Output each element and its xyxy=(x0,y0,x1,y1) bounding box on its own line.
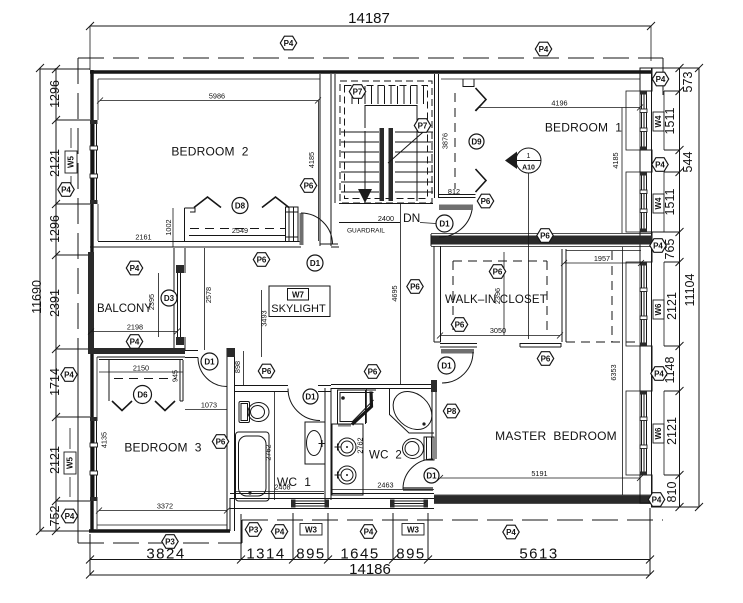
window tag W3 left xyxy=(300,524,322,536)
svg-text:573: 573 xyxy=(681,72,695,93)
svg-text:P4: P4 xyxy=(61,185,71,194)
interior dim 6353 (master) xyxy=(609,247,623,495)
wc2 toilet xyxy=(403,437,435,460)
svg-text:P6: P6 xyxy=(541,354,551,363)
stair upper landing edge xyxy=(365,105,417,201)
window W5 left lower glazing xyxy=(90,417,98,501)
svg-text:3372: 3372 xyxy=(157,502,173,511)
svg-text:4196: 4196 xyxy=(551,99,567,108)
svg-text:WC 2: WC 2 xyxy=(369,450,402,462)
tag D6 (bedroom3 wardrobe) xyxy=(134,386,152,404)
guardrail line xyxy=(339,214,400,223)
tag P4 (left 752) xyxy=(61,509,77,523)
svg-text:P6: P6 xyxy=(368,367,378,376)
bottom extension lines xyxy=(90,508,650,575)
bedroom2 wardrobe rail dashed + 2549 xyxy=(189,226,286,236)
interior wall: walk-in closet divider xyxy=(562,249,566,342)
svg-text:P4: P4 xyxy=(539,45,549,54)
svg-text:1511: 1511 xyxy=(663,108,677,135)
tag P4 (top eave left) xyxy=(280,36,296,50)
svg-text:D1: D1 xyxy=(310,259,321,268)
svg-text:11690: 11690 xyxy=(30,280,44,314)
svg-text:2400: 2400 xyxy=(378,214,394,223)
bedroom2 wardrobe right end cabinet xyxy=(286,207,299,242)
stairwell dashed opening outline xyxy=(340,81,432,203)
svg-text:2121: 2121 xyxy=(48,149,62,177)
svg-text:P4: P4 xyxy=(64,370,74,379)
svg-text:2150: 2150 xyxy=(133,364,149,373)
interior wall: bedroom3 north xyxy=(97,351,198,358)
svg-text:544: 544 xyxy=(681,152,695,173)
interior wall: stairwell west edge xyxy=(334,74,336,203)
svg-text:P4: P4 xyxy=(364,527,374,536)
interior dim 4196 (bedroom1) xyxy=(475,99,643,111)
svg-text:1511: 1511 xyxy=(663,189,677,216)
tag P4 (top eave right) xyxy=(535,42,551,56)
window W6 right third xyxy=(626,262,664,346)
exterior wall bottom (bedroom 3) xyxy=(89,525,230,531)
bedroom3 wardrobe dim 2150 xyxy=(99,364,183,373)
svg-text:2121: 2121 xyxy=(665,292,679,320)
svg-text:P6: P6 xyxy=(216,437,226,446)
svg-text:P4: P4 xyxy=(65,512,75,521)
svg-text:2762: 2762 xyxy=(356,437,365,453)
bedroom2 dim 1002 xyxy=(164,208,173,247)
bedroom2 wardrobe door chevron right xyxy=(262,197,289,208)
window W6 right lower xyxy=(626,391,664,475)
svg-text:WALK–IN CLOSET: WALK–IN CLOSET xyxy=(445,294,547,306)
tag P6 (bedroom2) xyxy=(300,179,316,193)
interior dim 2198 (balcony) xyxy=(88,323,180,335)
interior wall: balcony south (poche) xyxy=(88,348,185,354)
svg-text:898: 898 xyxy=(233,361,242,373)
svg-text:P6: P6 xyxy=(493,267,503,276)
svg-text:DN: DN xyxy=(403,211,420,225)
svg-text:2395: 2395 xyxy=(147,294,156,310)
svg-text:W6: W6 xyxy=(654,427,663,440)
tag D8 (bedroom2 wardrobe) xyxy=(232,198,248,214)
svg-text:1296: 1296 xyxy=(48,215,62,243)
right overall dimension 11104 xyxy=(683,64,703,511)
svg-text:A10: A10 xyxy=(522,165,535,172)
tag D3 (balcony door) xyxy=(161,290,177,306)
svg-text:4185: 4185 xyxy=(307,152,316,168)
svg-text:D1: D1 xyxy=(441,361,452,370)
svg-text:2121: 2121 xyxy=(48,446,62,474)
svg-text:W5: W5 xyxy=(66,456,75,469)
exterior wall right (window piers) xyxy=(640,68,652,507)
svg-text:P4: P4 xyxy=(130,337,140,346)
svg-text:GUARDRAIL: GUARDRAIL xyxy=(347,228,385,235)
svg-text:W5: W5 xyxy=(67,155,76,168)
wc1 vanity with oval basin xyxy=(305,422,326,464)
stair upper flight treads xyxy=(352,86,424,104)
svg-text:1: 1 xyxy=(527,153,531,160)
svg-text:945: 945 xyxy=(171,370,180,382)
bedroom2 wardrobe door chevron left xyxy=(194,197,221,208)
exterior wall bottom (master bedroom) xyxy=(434,495,651,504)
tag P4 (right 573) xyxy=(652,72,668,86)
svg-text:6353: 6353 xyxy=(609,364,618,380)
bedroom3 wardrobe door chevron right xyxy=(155,401,175,411)
svg-text:812: 812 xyxy=(448,187,460,196)
svg-text:MASTER BEDROOM: MASTER BEDROOM xyxy=(495,429,617,443)
tag P4 (bottom w3 left) xyxy=(271,525,287,539)
exterior wall top xyxy=(90,72,651,79)
svg-text:2161: 2161 xyxy=(135,233,151,242)
wc1 toilet xyxy=(239,402,269,423)
tag P6 (closet ne) xyxy=(489,265,505,279)
window tag W4 (right second) xyxy=(653,194,664,213)
wc1 bathtub xyxy=(236,432,270,501)
interior wall: wc1/wc2 divider xyxy=(325,388,331,500)
window tag W6 (right lower) xyxy=(653,424,664,443)
tag P6 (wc1 west wall) xyxy=(212,435,228,449)
interior dim 4185 (bedroom2) xyxy=(307,101,319,242)
tag P6 (bedroom1) xyxy=(477,194,493,208)
svg-text:1957: 1957 xyxy=(594,254,610,263)
interior dim 2762 (wc1) xyxy=(264,392,275,500)
svg-text:D1: D1 xyxy=(204,357,215,366)
tag P3 (bottom wc1) xyxy=(245,523,261,537)
tag P6 (closet sw) xyxy=(451,318,467,332)
door wc2-master leaf xyxy=(403,487,433,491)
tag P4 (left W5 upper) xyxy=(58,183,74,197)
svg-text:11104: 11104 xyxy=(683,274,697,307)
bedroom2 wardrobe left end xyxy=(185,208,196,242)
right extension lines xyxy=(651,68,699,507)
tag D1 (bedroom2 door) xyxy=(307,255,323,271)
svg-text:2578: 2578 xyxy=(204,287,213,303)
interior dim 1073 (bedroom3 entry) xyxy=(185,401,227,410)
svg-text:BEDROOM 3: BEDROOM 3 xyxy=(124,441,201,455)
right dimension chain 573/1511/544/1511/765/2121/1148/2121/810 xyxy=(663,64,695,511)
svg-text:P6: P6 xyxy=(257,255,267,264)
interior wall: balcony east with door jambs xyxy=(174,248,185,350)
svg-text:W4: W4 xyxy=(654,115,663,128)
door wc1 swing arc xyxy=(288,389,320,421)
svg-text:1714: 1714 xyxy=(48,368,62,396)
door bedroom2 swing arc xyxy=(301,213,333,245)
wc2 bathtub oval xyxy=(386,384,440,437)
svg-text:P4: P4 xyxy=(654,369,664,378)
door bedroom1 leaf xyxy=(439,205,473,211)
svg-text:D1: D1 xyxy=(426,471,437,480)
interior wall: walk-in closet west xyxy=(434,246,441,342)
tag P6 (closet door) xyxy=(537,352,553,366)
svg-text:W3: W3 xyxy=(305,525,318,534)
svg-text:2762: 2762 xyxy=(264,444,273,460)
svg-text:BEDROOM 1: BEDROOM 1 xyxy=(545,121,622,135)
svg-text:4695: 4695 xyxy=(390,285,399,301)
svg-text:P4: P4 xyxy=(506,528,516,537)
bedroom1 closet dashed rail xyxy=(454,93,456,189)
tag P8 (master west) xyxy=(443,404,459,418)
wc2 corner shower xyxy=(338,390,377,426)
svg-text:4185: 4185 xyxy=(611,152,620,168)
svg-text:P7: P7 xyxy=(353,87,363,96)
window tag W5 (left upper) xyxy=(65,128,77,196)
tag P4 (bottom master) xyxy=(503,525,519,539)
interior dim 4695 (hall) xyxy=(390,204,401,385)
tag D1 (bedroom1 door) xyxy=(436,215,453,232)
tag D1 (closet door) xyxy=(438,357,455,374)
tag P4 (balcony lower) xyxy=(126,335,142,349)
section marker A10 xyxy=(505,148,541,173)
interior wall: wc1 north with door opening xyxy=(234,386,331,392)
walk-in closet dim 1957 xyxy=(561,254,644,266)
door bedroom1 swing arc xyxy=(439,210,472,237)
svg-text:P8: P8 xyxy=(447,407,457,416)
tag P3 (bottom bedroom3) xyxy=(162,535,178,549)
interior dim 4185 (bedroom1) xyxy=(611,108,622,234)
door bedroom2 leaf xyxy=(300,213,304,245)
tag P7 (stair upper) xyxy=(349,85,365,99)
interior wall: balcony west (poche) xyxy=(88,252,94,352)
svg-text:4135: 4135 xyxy=(100,432,109,448)
window tag W4 (right upper) xyxy=(653,112,664,131)
svg-text:895: 895 xyxy=(396,546,426,563)
svg-text:P4: P4 xyxy=(284,39,294,48)
svg-text:5613: 5613 xyxy=(519,546,558,563)
svg-text:765: 765 xyxy=(663,239,677,260)
interior dim 898 (wc1) xyxy=(233,351,244,385)
door walk-in closet leaf xyxy=(441,349,474,354)
left extension lines xyxy=(40,69,90,531)
window tag W3 right xyxy=(402,524,424,536)
tag D9 (bedroom1 closet) xyxy=(469,134,484,149)
window W3 bottom left xyxy=(291,500,329,508)
tag P4 (right 765) xyxy=(650,239,666,253)
interior wall: stairwell east / bedroom1 closet xyxy=(435,74,476,198)
interior dim 5986 (bedroom2) xyxy=(97,92,321,104)
svg-text:2391: 2391 xyxy=(48,289,62,317)
svg-text:1073: 1073 xyxy=(201,401,217,410)
tag P6 (closet north wall) xyxy=(537,229,553,243)
interior wall: bedroom2 south xyxy=(90,242,339,248)
interior wall: hall south / walk-in closet north (poche) xyxy=(431,234,652,247)
svg-text:5986: 5986 xyxy=(209,92,225,101)
stair bottom edge xyxy=(339,203,433,205)
tag P4 (bottom 1645) xyxy=(360,525,376,539)
bedroom3 wardrobe door chevron left xyxy=(112,401,132,411)
window W5 left upper glazing xyxy=(90,120,98,204)
svg-text:P3: P3 xyxy=(249,525,259,534)
interior dim 2408 (wc1) xyxy=(235,483,324,492)
tag P4 (right 810) xyxy=(648,493,664,507)
bedroom1 closet chevron lower xyxy=(476,169,487,192)
svg-text:2121: 2121 xyxy=(665,417,679,445)
exterior wall left xyxy=(92,70,98,531)
svg-text:14186: 14186 xyxy=(349,561,391,578)
stair break line xyxy=(388,126,430,163)
window W4 right upper xyxy=(626,91,664,150)
svg-text:2198: 2198 xyxy=(127,323,143,332)
svg-text:P3: P3 xyxy=(165,537,175,546)
svg-text:D3: D3 xyxy=(164,294,175,303)
svg-text:D6: D6 xyxy=(137,390,148,399)
tag P6 (hall south) xyxy=(407,280,423,294)
left overall dimension 11690 xyxy=(30,64,44,535)
eave / roof overhang dashed outline xyxy=(78,58,663,543)
stair down arrow xyxy=(358,131,372,203)
bedroom1 wall notch xyxy=(463,79,474,87)
walk-in closet dashed outline left section xyxy=(453,261,547,336)
svg-text:P6: P6 xyxy=(455,320,465,329)
eave solid segment left of bedroom 3 xyxy=(77,350,79,543)
leader line D1 bedroom1 xyxy=(420,223,436,224)
svg-text:D1: D1 xyxy=(305,392,316,401)
svg-text:1296: 1296 xyxy=(48,80,62,108)
bottom dimension chain 3824/1314/895/1645/895/5613 xyxy=(86,546,654,564)
svg-text:14187: 14187 xyxy=(348,10,390,27)
bedroom3 wardrobe top xyxy=(99,360,183,402)
svg-text:D1: D1 xyxy=(439,219,450,228)
svg-text:1314: 1314 xyxy=(246,546,285,563)
wc2 vanity with two basins xyxy=(332,424,363,495)
interior wall: bedroom3 east / wc1 west xyxy=(227,348,235,531)
tag P6 (hall west) xyxy=(253,253,269,267)
svg-text:3493: 3493 xyxy=(260,310,269,326)
interior wall: walk-in closet south segments xyxy=(440,343,561,347)
svg-text:W7: W7 xyxy=(292,291,305,300)
tag D1 (wc2 door) xyxy=(424,468,439,483)
top dimension line 14187 xyxy=(86,10,655,70)
door wc2-master swing arc xyxy=(403,459,433,489)
interior wall: wc2 east / master west xyxy=(431,380,437,459)
svg-text:P6: P6 xyxy=(304,181,314,190)
stair right flight treads xyxy=(395,132,433,192)
window W4 right second xyxy=(626,172,664,232)
svg-text:5191: 5191 xyxy=(531,469,547,478)
interior dim 3493 (skylight) xyxy=(260,290,269,357)
walk-in closet right section lines xyxy=(566,251,641,343)
svg-text:2408: 2408 xyxy=(274,483,290,492)
tag P6 (wc1 north) xyxy=(258,364,274,378)
tag P4 (right 544 pier) xyxy=(652,158,668,172)
tag D1 (wc1 door) xyxy=(303,389,318,404)
svg-text:752: 752 xyxy=(48,506,62,527)
stair center stringer bars xyxy=(380,128,385,201)
door bedroom3 swing arc xyxy=(198,358,227,387)
tag P4 (right 1148) xyxy=(651,367,667,381)
exterior wall bottom (wc belt) xyxy=(230,494,434,532)
svg-text:BEDROOM 2: BEDROOM 2 xyxy=(171,145,248,159)
svg-text:W4: W4 xyxy=(654,197,663,210)
walk-in closet dim 2396 xyxy=(493,252,504,335)
svg-text:P6: P6 xyxy=(481,197,491,206)
svg-text:P4: P4 xyxy=(655,160,665,169)
svg-text:W6: W6 xyxy=(654,303,663,316)
interior wall: bedroom2 east xyxy=(320,74,338,246)
left dimension chain 1296/2121/1296/2391/1714/2121/752 xyxy=(48,65,62,535)
svg-text:SKYLIGHT: SKYLIGHT xyxy=(271,303,326,315)
svg-text:P4: P4 xyxy=(656,75,666,84)
svg-text:D9: D9 xyxy=(471,137,482,146)
svg-text:P4: P4 xyxy=(130,264,140,273)
interior dim 2395 (balcony door) xyxy=(147,273,159,337)
tag P7 (stair break) xyxy=(414,119,430,133)
svg-text:P4: P4 xyxy=(275,527,285,536)
svg-text:P4: P4 xyxy=(653,241,663,250)
svg-text:P6: P6 xyxy=(540,231,550,240)
walk-in closet dim 3050 xyxy=(437,326,563,339)
tag D1 (bedroom3 door) xyxy=(201,353,218,370)
interior dim 5191 (master) xyxy=(437,469,643,481)
svg-text:810: 810 xyxy=(665,482,679,503)
bedroom3 wardrobe rail dashed xyxy=(114,378,176,380)
window W3 bottom right xyxy=(390,500,428,508)
svg-text:P7: P7 xyxy=(418,121,428,130)
window tag W6 (right third) xyxy=(653,300,664,319)
section cut line xyxy=(528,173,530,339)
svg-text:BALCONY: BALCONY xyxy=(97,303,152,315)
interior dim 2762 (wc2) xyxy=(356,389,367,454)
svg-text:3876: 3876 xyxy=(441,133,450,149)
svg-text:2549: 2549 xyxy=(232,226,248,235)
bedroom1 closet chevron upper xyxy=(476,88,487,111)
svg-text:2463: 2463 xyxy=(377,481,393,490)
svg-text:1645: 1645 xyxy=(340,546,379,563)
svg-text:P6: P6 xyxy=(410,282,420,291)
interior dim 3372 (bedroom3) xyxy=(96,502,230,514)
window tag W5 (left lower) xyxy=(64,428,76,497)
svg-text:D8: D8 xyxy=(235,201,246,210)
interior dim 2463 (wc2) xyxy=(331,481,434,490)
svg-text:W3: W3 xyxy=(407,525,420,534)
stair left flight treads xyxy=(341,132,379,192)
svg-text:1002: 1002 xyxy=(164,219,173,235)
bottom overall dimension 14186 xyxy=(86,561,654,579)
tag P4 (left 1714) xyxy=(61,368,77,382)
skylight box xyxy=(269,286,330,317)
svg-text:895: 895 xyxy=(296,546,326,563)
tag P4 (balcony upper) xyxy=(126,261,142,275)
interior wall: wc2 north xyxy=(331,385,434,389)
svg-text:P4: P4 xyxy=(652,495,662,504)
door walk-in closet swing arc xyxy=(442,352,473,383)
interior dim 2578 (hall west) xyxy=(204,248,213,350)
eave right vertical segment xyxy=(662,58,664,95)
tag P6 (wc2 north) xyxy=(364,365,380,379)
svg-text:P6: P6 xyxy=(262,367,272,376)
